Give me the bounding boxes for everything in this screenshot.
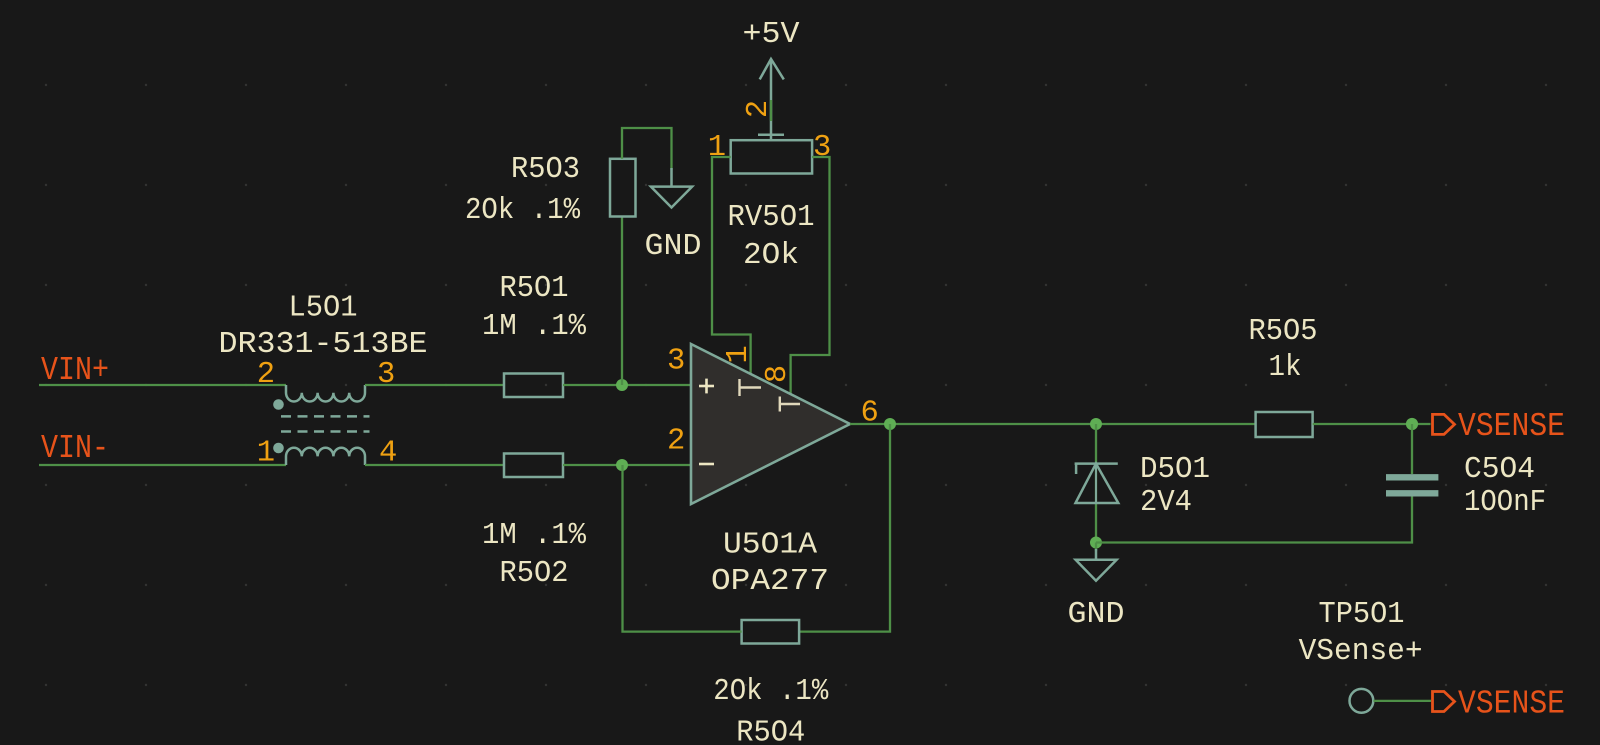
polarity dot top xyxy=(273,399,284,410)
ground symbol xyxy=(1076,549,1117,581)
svg-text:VSense+: VSense+ xyxy=(1299,635,1423,669)
svg-text:D5O1: D5O1 xyxy=(1140,453,1210,487)
global label VSENSE bottom xyxy=(1433,686,1566,723)
wire xyxy=(621,217,623,386)
svg-text:1M .1%: 1M .1% xyxy=(482,310,587,344)
svg-text:1: 1 xyxy=(722,345,756,363)
svg-text:2Ok: 2Ok xyxy=(743,239,799,273)
wire xyxy=(791,157,830,395)
svg-text:2V4: 2V4 xyxy=(1140,486,1192,520)
wire xyxy=(712,157,751,375)
svg-text:2: 2 xyxy=(667,425,685,459)
wire xyxy=(622,128,672,170)
ground symbol xyxy=(651,168,692,208)
potentiometer RV501 wiper bar xyxy=(758,134,784,137)
junction xyxy=(616,459,628,471)
svg-text:8: 8 xyxy=(761,365,795,383)
svg-text:U5O1A: U5O1A xyxy=(723,529,818,563)
svg-text:GND: GND xyxy=(1068,598,1125,632)
svg-text:R5O5: R5O5 xyxy=(1249,315,1318,349)
wire xyxy=(799,424,890,632)
svg-text:RV5O1: RV5O1 xyxy=(728,201,815,235)
svg-text:R5O3: R5O3 xyxy=(511,153,580,187)
wire xyxy=(1411,424,1413,474)
inductor L501 core dashed lines xyxy=(281,416,370,431)
svg-text:3: 3 xyxy=(667,345,685,379)
svg-text:1: 1 xyxy=(708,131,726,165)
resistor R503 xyxy=(610,159,636,217)
minus mark xyxy=(699,463,714,466)
svg-text:6: 6 xyxy=(861,396,879,430)
global label VSENSE top xyxy=(1433,408,1566,445)
capacitor C504 xyxy=(1386,477,1438,493)
svg-text:3: 3 xyxy=(377,358,395,392)
svg-text:1: 1 xyxy=(257,437,275,471)
svg-text:R5O2: R5O2 xyxy=(500,557,569,591)
svg-text:1M .1%: 1M .1% xyxy=(482,519,587,553)
inductor L501 bottom winding xyxy=(286,448,365,465)
svg-text:R5O4: R5O4 xyxy=(736,717,805,745)
wire xyxy=(770,100,772,121)
wire xyxy=(1095,424,1097,543)
wire xyxy=(39,384,286,386)
svg-text:OPA277: OPA277 xyxy=(711,565,829,599)
wire xyxy=(1374,700,1432,702)
zener diode D501 xyxy=(1075,464,1119,503)
wire xyxy=(563,464,691,466)
wire xyxy=(365,464,504,466)
svg-text:C5O4: C5O4 xyxy=(1464,453,1535,487)
svg-text:1OOnF: 1OOnF xyxy=(1464,486,1546,520)
svg-text:2Ok .1%: 2Ok .1% xyxy=(465,194,581,228)
svg-text:VIN-: VIN- xyxy=(41,430,109,467)
svg-text:L5O1: L5O1 xyxy=(289,292,358,326)
svg-text:2: 2 xyxy=(742,100,776,118)
junction xyxy=(1406,418,1418,430)
svg-text:+5V: +5V xyxy=(743,18,801,52)
polarity dot bottom xyxy=(273,443,284,454)
inductor L501 top winding xyxy=(286,385,365,402)
wire xyxy=(365,384,504,386)
svg-text:VSENSE: VSENSE xyxy=(1458,408,1565,445)
wire xyxy=(1313,423,1431,425)
wire xyxy=(39,464,286,466)
op-amp U501A xyxy=(691,344,850,504)
resistor R502 xyxy=(504,454,563,478)
junction xyxy=(1090,418,1102,430)
test point TP501 xyxy=(1350,689,1374,713)
svg-text:DR331-513BE: DR331-513BE xyxy=(219,328,428,362)
svg-text:VIN+: VIN+ xyxy=(41,352,109,389)
wire xyxy=(850,423,1256,425)
pin 8 T mark xyxy=(780,397,800,412)
junction xyxy=(616,379,628,391)
wire xyxy=(1095,543,1097,552)
wire xyxy=(623,465,742,632)
resistor R501 xyxy=(504,374,563,398)
svg-text:GND: GND xyxy=(645,230,702,264)
svg-text:1k: 1k xyxy=(1269,351,1302,385)
wire xyxy=(563,384,691,386)
plus mark xyxy=(699,379,714,394)
svg-text:2Ok .1%: 2Ok .1% xyxy=(713,675,829,709)
resistor R504 xyxy=(742,620,800,644)
svg-text:R5O1: R5O1 xyxy=(500,272,569,306)
svg-text:2: 2 xyxy=(257,358,275,392)
junction xyxy=(1090,537,1102,549)
resistor R505 xyxy=(1256,412,1313,437)
wire xyxy=(1096,497,1412,543)
junction xyxy=(884,418,896,430)
svg-text:TP5O1: TP5O1 xyxy=(1319,598,1405,632)
pin 1 T mark xyxy=(740,379,762,396)
potentiometer RV501 xyxy=(731,140,812,173)
power symbol +5V xyxy=(760,59,784,140)
svg-text:VSENSE: VSENSE xyxy=(1458,686,1565,723)
